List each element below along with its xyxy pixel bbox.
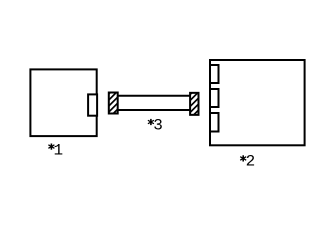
- svg-text:1: 1: [54, 142, 64, 160]
- svg-text:2: 2: [246, 153, 256, 171]
- svg-text:3: 3: [153, 116, 163, 134]
